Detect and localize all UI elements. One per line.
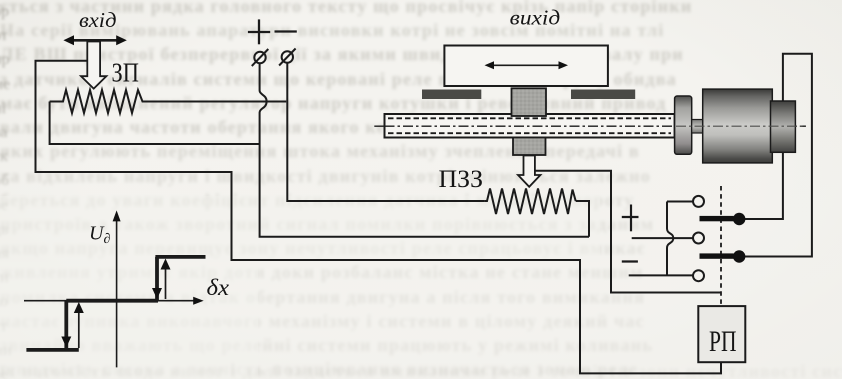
svg-text:вхід: вхід (79, 8, 117, 32)
svg-text:ЗП: ЗП (112, 58, 139, 88)
svg-text:вихід: вихід (510, 5, 561, 29)
svg-text:ПЗЗ: ПЗЗ (439, 166, 484, 193)
svg-text:δx: δx (207, 275, 230, 300)
svg-text:РП: РП (709, 326, 737, 358)
svg-text:U∂: U∂ (89, 223, 110, 248)
